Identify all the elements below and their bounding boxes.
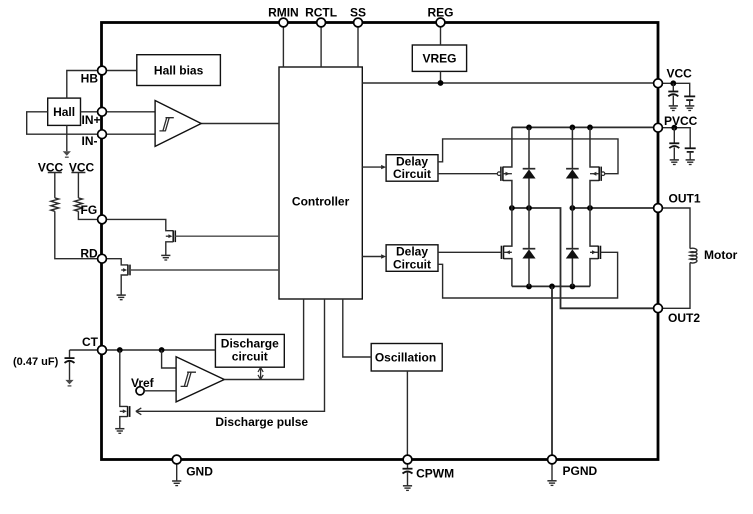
- svg-text:IN+: IN+: [81, 113, 100, 127]
- wire lower delay to M3 gate: [438, 251, 501, 253]
- wire lower delay to M4 gate: [438, 252, 618, 298]
- wire VREG output stub: [440, 71, 442, 83]
- block: Oscillation: [371, 344, 442, 372]
- svg-text:FG: FG: [81, 203, 98, 217]
- svg-text:RMIN: RMIN: [268, 5, 299, 19]
- inductor motor coil: [690, 248, 697, 263]
- wire bottom rail: [512, 285, 590, 287]
- capacitor C4 (PVCC ceramic): [685, 147, 696, 149]
- node bottom rail D2: [570, 284, 576, 290]
- wire comparator out to controller: [224, 299, 303, 380]
- wire RMIN to controller: [282, 23, 284, 68]
- arrow discharge pulse (open head): [136, 408, 141, 415]
- transistor M4 low-side right (N-ch): [590, 208, 598, 246]
- pin OUT2: [654, 304, 663, 313]
- transistor Q2 (RD output): [127, 265, 129, 276]
- ground below C2: [685, 105, 694, 107]
- svg-text:SS: SS: [350, 5, 366, 19]
- gate bubble M2: [601, 172, 605, 176]
- svg-text:PVCC: PVCC: [664, 114, 698, 128]
- pin OUT1: [654, 204, 663, 213]
- wire Oscillation to CPWM: [406, 371, 408, 460]
- wire PVCC decoupling branch: [658, 128, 690, 149]
- node CT-Q3 junction: [117, 347, 123, 353]
- gate bubble M1: [497, 172, 501, 176]
- svg-text:circuit: circuit: [232, 349, 268, 363]
- svg-text:Discharge pulse: Discharge pulse: [215, 415, 308, 429]
- node bottom rail PGND: [549, 284, 555, 290]
- ground below C3: [670, 159, 679, 161]
- pin PVCC: [654, 123, 663, 132]
- ground below GND pin: [176, 460, 178, 481]
- svg-text:VCC: VCC: [667, 67, 693, 81]
- wire IN- to comparator: [102, 133, 155, 135]
- capacitor CT external (0.47 uF): [69, 350, 71, 358]
- block: Hall element: [48, 98, 81, 125]
- node top rail M2: [587, 125, 593, 131]
- wire HB left to Hall: [67, 71, 102, 99]
- wire Q3 source to ground: [120, 417, 128, 429]
- pin HB: [98, 66, 107, 75]
- diode D3 lower (left column): [528, 208, 530, 249]
- pin CPWM: [403, 455, 412, 464]
- capacitor C1 (VCC electrolytic): [672, 83, 674, 91]
- node bottom rail D1: [526, 284, 532, 290]
- svg-text:IN-: IN-: [82, 134, 98, 148]
- wire discharge pulse from controller: [136, 299, 325, 411]
- wire CT net to Discharge circuit: [70, 349, 216, 351]
- pin SS: [354, 18, 363, 27]
- wire SS to controller: [357, 23, 359, 68]
- capacitor C3 (PVCC electrolytic): [673, 128, 675, 144]
- ground below Q2: [117, 294, 126, 296]
- ground below PGND pin: [551, 460, 553, 481]
- transistor M1 high-side left (P-ch): [503, 127, 512, 167]
- wire RCTL to controller: [320, 23, 322, 68]
- wire controller to Oscillation: [343, 299, 371, 357]
- ground below Q3: [115, 428, 124, 430]
- pin FG: [98, 215, 107, 224]
- capacitor C5 (CPWM): [407, 460, 409, 469]
- svg-text:Hall: Hall: [53, 105, 75, 119]
- block: Hall bias: [137, 55, 221, 86]
- svg-text:Motor: Motor: [704, 248, 738, 262]
- svg-text:RD: RD: [80, 247, 98, 261]
- node VCC cap junction: [670, 80, 676, 86]
- pin CT: [98, 346, 107, 355]
- pin IN-: [98, 130, 107, 139]
- transistor M3 low-side left (N-ch): [504, 208, 512, 246]
- pin GND: [172, 455, 181, 464]
- block: Delay Circuit lower: [386, 245, 438, 271]
- pin PGND: [548, 455, 557, 464]
- wire VCC to R2: [77, 173, 79, 198]
- svg-text:VREG: VREG: [422, 52, 456, 66]
- ground below C1: [669, 105, 678, 107]
- pin VCC: [654, 79, 663, 88]
- svg-text:GND: GND: [186, 465, 213, 479]
- svg-text:OUT1: OUT1: [669, 192, 701, 206]
- block: Discharge circuit: [215, 334, 284, 367]
- wire REG to VREG: [440, 22, 442, 45]
- wire OUT1 mid rail: [572, 207, 655, 209]
- connector Discharge circuit to output (double arrow): [260, 369, 262, 379]
- pin REG: [436, 18, 445, 27]
- op-amp U2 (hall comparator): [155, 101, 201, 147]
- wire Hall ground stub: [66, 125, 68, 151]
- block: Controller U1: [279, 67, 362, 299]
- diode D2 upper (right column): [571, 127, 573, 168]
- svg-text:OUT2: OUT2: [668, 311, 700, 325]
- transistor M2 high-side right (P-ch): [590, 127, 599, 167]
- svg-text:Circuit: Circuit: [393, 257, 431, 271]
- IC boundary border: [102, 23, 659, 460]
- wire upper delay to M2 gate: [438, 139, 618, 174]
- wire motor to OUT2: [658, 263, 690, 309]
- ground below C4: [686, 159, 695, 161]
- pin RMIN: [279, 18, 288, 27]
- node top rail D1: [526, 125, 532, 131]
- resistor R1 (VCC to RD): [51, 198, 59, 211]
- wire VCC to R1: [54, 173, 56, 198]
- svg-text:Controller: Controller: [292, 194, 350, 208]
- pin RCTL: [317, 18, 326, 27]
- svg-text:Hall bias: Hall bias: [154, 64, 204, 78]
- block: Delay Circuit upper: [386, 155, 438, 182]
- wire CT to comparator + input: [162, 350, 177, 368]
- resistor R2 (VCC to FG): [75, 198, 83, 211]
- diode D1 upper (left column): [528, 127, 530, 168]
- wire OUT2 mid rail: [512, 208, 655, 308]
- pin IN+: [98, 107, 107, 116]
- svg-text:PGND: PGND: [563, 464, 598, 478]
- diode D4 lower (right column): [571, 208, 573, 249]
- ground (arrow) below Hall: [63, 151, 71, 156]
- wire Hall loop to IN-: [27, 112, 102, 134]
- capacitor C2 (VCC ceramic): [684, 95, 695, 97]
- wire RD pin to Q2: [102, 259, 128, 265]
- transistor Q1 (FG output): [172, 230, 174, 242]
- op-amp U3 (CT comparator): [176, 357, 224, 402]
- wire Q2 gate to controller: [130, 269, 279, 271]
- node VREG-VCC junction: [438, 80, 444, 86]
- wire Hall to IN+: [81, 111, 103, 113]
- wire FG pin to Q1: [102, 219, 173, 230]
- wire upper delay to M1 gate: [438, 173, 497, 175]
- wire R2 to FG pin: [78, 211, 102, 219]
- schmitt symbol U3: [181, 372, 196, 386]
- wire controller to lower delay (arrow): [362, 256, 381, 258]
- block: VREG regulator: [412, 45, 466, 71]
- schmitt symbol U2: [159, 118, 173, 131]
- wire R1 to RD pin: [55, 211, 102, 258]
- wire controller to upper delay (arrow): [362, 166, 381, 168]
- ground below C5: [403, 485, 412, 487]
- svg-text:CPWM: CPWM: [416, 467, 454, 481]
- svg-text:Oscillation: Oscillation: [375, 351, 436, 365]
- node top rail D2: [570, 125, 576, 131]
- node mid rail D2: [570, 205, 576, 211]
- svg-text:RCTL: RCTL: [305, 5, 337, 19]
- wire PGND vertical: [551, 286, 553, 459]
- node mid rail M2: [587, 205, 593, 211]
- node mid rail M1: [509, 205, 515, 211]
- node PVCC cap junction: [671, 125, 677, 131]
- svg-text:(0.47 uF): (0.47 uF): [13, 356, 59, 368]
- pin RD: [98, 254, 107, 263]
- wire HB to Hall bias box: [102, 70, 137, 72]
- ground (arrow) below CT cap: [65, 380, 73, 385]
- wire PVCC top rail: [512, 126, 655, 128]
- svg-text:REG: REG: [427, 5, 453, 19]
- ground below Q1: [161, 254, 170, 256]
- transistor Q3 (CT discharge): [120, 350, 128, 406]
- wire VCC decoupling branch: [658, 83, 690, 96]
- wire OUT1 to motor: [658, 208, 690, 249]
- wire comparator out to controller: [201, 123, 279, 125]
- wire VCC net: controller to VCC pin: [362, 82, 655, 84]
- wire IN+ to comparator: [102, 111, 155, 113]
- svg-text:HB: HB: [81, 71, 99, 85]
- svg-text:CT: CT: [82, 335, 99, 349]
- svg-text:Circuit: Circuit: [393, 167, 431, 181]
- wire Q1 source to ground: [166, 242, 173, 255]
- node CT-comparator junction: [159, 347, 165, 353]
- node mid rail D1: [526, 205, 532, 211]
- wire Q1 gate to controller: [175, 235, 279, 237]
- wire Vref to comparator: [144, 390, 176, 392]
- wire Q2 source to ground: [121, 275, 128, 295]
